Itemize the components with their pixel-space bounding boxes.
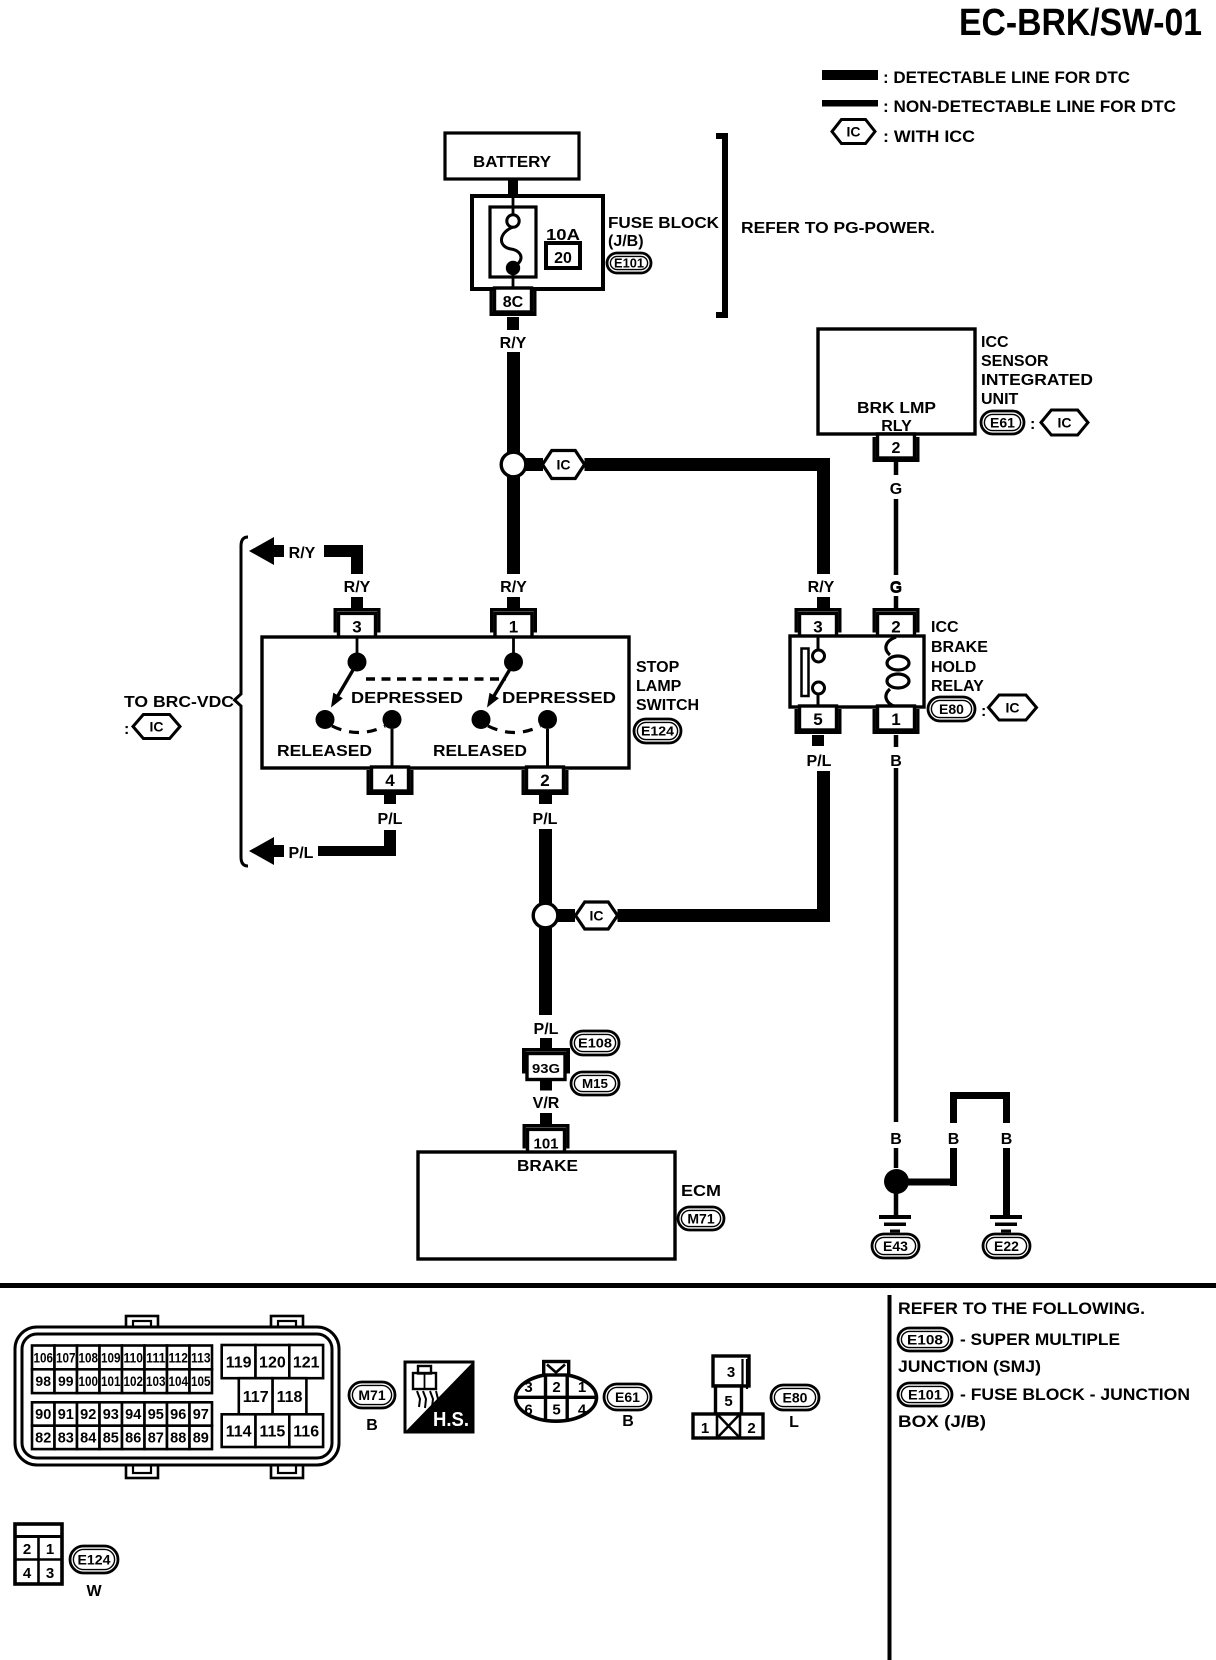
wire stub above relay pin2 — [894, 596, 899, 608]
svg-text:B: B — [622, 1413, 634, 1430]
connector pin 2 stop lamp switch — [527, 767, 564, 791]
bracket to BRC-VDC — [235, 537, 249, 866]
svg-text:119: 119 — [226, 1354, 252, 1371]
svg-text:87: 87 — [148, 1431, 164, 1447]
svg-text:BRK LMP: BRK LMP — [857, 400, 936, 417]
svg-text:IC: IC — [590, 908, 604, 924]
svg-text:G: G — [890, 580, 902, 597]
footnote divider — [888, 1295, 892, 1660]
arrow R/Y to BRC-VDC — [249, 537, 274, 565]
svg-text:W: W — [86, 1583, 102, 1600]
svg-text:93: 93 — [103, 1407, 119, 1423]
IC flag at node 2 — [576, 902, 618, 929]
svg-text:R/Y: R/Y — [500, 579, 527, 596]
svg-text:- SUPER MULTIPLE: - SUPER MULTIPLE — [960, 1330, 1120, 1349]
wire R/Y below node 1 — [507, 477, 520, 574]
svg-text:121: 121 — [293, 1354, 320, 1371]
svg-text:1: 1 — [701, 1420, 709, 1437]
svg-text:92: 92 — [80, 1407, 96, 1423]
svg-text:JUNCTION (SMJ): JUNCTION (SMJ) — [898, 1357, 1041, 1376]
wire P/L pin2 to node 2 — [539, 829, 552, 903]
fuse F20 housing — [490, 207, 536, 277]
svg-text:86: 86 — [125, 1431, 141, 1447]
svg-text:113: 113 — [191, 1349, 211, 1365]
svg-text:5: 5 — [724, 1393, 732, 1410]
arrow P/L to BRC-VDC — [249, 837, 274, 865]
H.S. logo — [405, 1362, 473, 1432]
wire stub below pin 4 — [384, 795, 396, 804]
connector pin 1 stop lamp switch — [490, 608, 537, 611]
svg-text:SENSOR: SENSOR — [981, 353, 1049, 370]
svg-text:E108: E108 — [907, 1332, 943, 1348]
connector label E124 switch — [634, 719, 681, 743]
svg-text:2: 2 — [552, 1379, 560, 1396]
svg-text:P/L: P/L — [807, 753, 832, 770]
svg-text:8C: 8C — [503, 294, 524, 311]
connector label E22 — [983, 1234, 1030, 1258]
wire B vertical long — [894, 768, 899, 1122]
svg-text:3: 3 — [524, 1379, 532, 1396]
ICC sensor integrated unit box — [818, 329, 975, 434]
svg-text:TO BRC-VDC: TO BRC-VDC — [124, 694, 234, 711]
svg-text:4: 4 — [23, 1565, 32, 1582]
svg-text:118: 118 — [277, 1389, 303, 1406]
svg-text:E61: E61 — [990, 415, 1015, 431]
svg-text:IC: IC — [1058, 415, 1072, 431]
fuse block J/B box — [472, 196, 603, 289]
svg-text:B: B — [890, 1131, 902, 1148]
connector label M71 bottom — [349, 1382, 395, 1408]
ground E22 symbol — [990, 1215, 1022, 1219]
ECM box — [418, 1152, 675, 1259]
node 1 tick — [526, 458, 543, 471]
svg-text:R/Y: R/Y — [500, 335, 527, 352]
wire B bridge left down — [950, 1148, 957, 1186]
wire battery to fuse block — [508, 179, 518, 197]
wire stub below relay pin1 — [894, 735, 899, 747]
connector pin 3 stop lamp switch — [334, 608, 381, 611]
wire B junction to ground — [894, 1193, 899, 1215]
svg-text:M15: M15 — [582, 1076, 608, 1091]
svg-text:20: 20 — [554, 250, 572, 267]
round connector E61 — [516, 1374, 597, 1421]
ecm connector pin grid lower-left — [32, 1402, 55, 1425]
connector pin 5 relay — [800, 706, 837, 730]
svg-text:(J/B): (J/B) — [608, 233, 644, 250]
svg-text:- FUSE BLOCK - JUNCTION: - FUSE BLOCK - JUNCTION — [960, 1385, 1190, 1404]
connector label E124 bottom — [70, 1546, 118, 1573]
svg-text:: WITH ICC: : WITH ICC — [883, 127, 975, 146]
svg-text:REFER TO PG-POWER.: REFER TO PG-POWER. — [741, 220, 935, 237]
svg-text:E108: E108 — [578, 1036, 612, 1051]
svg-text:EC-BRK/SW-01: EC-BRK/SW-01 — [959, 2, 1202, 44]
connector 8C — [495, 288, 532, 312]
svg-text:H.S.: H.S. — [433, 1408, 469, 1431]
node IC junction 1 — [501, 452, 526, 477]
svg-text:G: G — [890, 481, 902, 498]
ecm connector shell — [126, 1316, 158, 1329]
svg-text:B: B — [366, 1417, 378, 1434]
svg-text:95: 95 — [148, 1407, 164, 1423]
wire R/Y branch to pin3 — [324, 545, 363, 557]
svg-text:107: 107 — [56, 1349, 76, 1365]
svg-text:E101: E101 — [908, 1387, 942, 1403]
connector 2 below ICC unit — [878, 434, 915, 458]
wire thick vertical relay pin5 — [817, 771, 830, 922]
connector label M15 — [571, 1072, 619, 1095]
svg-text:93G: 93G — [532, 1061, 560, 1076]
svg-text:3: 3 — [813, 618, 822, 637]
svg-text:3: 3 — [352, 618, 361, 637]
connector label E80 relay — [928, 697, 975, 721]
svg-text:P/L: P/L — [289, 845, 314, 862]
svg-text:STOP: STOP — [636, 659, 680, 676]
svg-text:1: 1 — [578, 1379, 586, 1396]
svg-text:101: 101 — [101, 1373, 121, 1389]
svg-text:L: L — [789, 1414, 799, 1431]
svg-text:5: 5 — [813, 710, 822, 729]
svg-text:E124: E124 — [78, 1552, 111, 1568]
svg-text:1: 1 — [46, 1541, 54, 1558]
svg-text:99: 99 — [58, 1373, 74, 1389]
relay coil — [886, 637, 896, 655]
footnote E101 — [898, 1383, 952, 1406]
switch poles and contacts — [356, 638, 359, 654]
svg-text:M71: M71 — [687, 1211, 714, 1227]
svg-text:116: 116 — [293, 1423, 319, 1440]
wire P/L below node 2 — [539, 928, 552, 1015]
connector label E101 — [607, 253, 651, 273]
svg-text:FUSE BLOCK: FUSE BLOCK — [608, 215, 719, 232]
svg-text:BRAKE: BRAKE — [931, 639, 988, 656]
svg-text:E22: E22 — [994, 1238, 1019, 1254]
svg-text:97: 97 — [193, 1407, 209, 1423]
svg-text:2: 2 — [747, 1420, 755, 1437]
separator line — [0, 1283, 1216, 1288]
svg-text:84: 84 — [80, 1431, 96, 1447]
fuse number 20 box — [546, 243, 580, 268]
smj terminal 93G — [522, 1048, 570, 1052]
connector E80 cavity diagram — [713, 1356, 749, 1386]
svg-text:RELAY: RELAY — [931, 678, 984, 695]
svg-text:91: 91 — [58, 1407, 74, 1423]
wire stub below ICC unit 2 — [894, 462, 899, 475]
wire B bridge — [950, 1092, 1010, 1099]
legend detectable line sample — [822, 70, 878, 80]
wire stub below relay pin5 — [812, 735, 824, 746]
svg-text:112: 112 — [168, 1349, 188, 1365]
svg-text:104: 104 — [168, 1373, 188, 1389]
svg-text:83: 83 — [58, 1431, 74, 1447]
svg-text:88: 88 — [170, 1431, 186, 1447]
svg-text:111: 111 — [146, 1349, 166, 1365]
node 2 tick — [558, 909, 575, 922]
svg-text:90: 90 — [35, 1407, 51, 1423]
IC flag at node 1 — [543, 451, 585, 479]
svg-text:E80: E80 — [939, 701, 964, 717]
svg-text:85: 85 — [103, 1431, 119, 1447]
wire stub below 8C — [507, 317, 519, 330]
svg-text:105: 105 — [191, 1373, 211, 1389]
svg-text:109: 109 — [101, 1349, 121, 1365]
svg-text:: NON-DETECTABLE LINE FOR DTC: : NON-DETECTABLE LINE FOR DTC — [883, 97, 1176, 116]
connector label E80 bottom — [771, 1385, 819, 1410]
connector E124 cavity diagram — [15, 1524, 62, 1584]
svg-text:4: 4 — [385, 771, 395, 790]
connector label E108 — [571, 1031, 619, 1055]
svg-text:INTEGRATED: INTEGRATED — [981, 372, 1093, 389]
svg-text:P/L: P/L — [378, 811, 403, 828]
wire stub above 101 — [540, 1113, 552, 1124]
wire B to junction — [894, 1148, 899, 1168]
svg-text:106: 106 — [33, 1349, 53, 1365]
svg-text:IC: IC — [557, 457, 571, 473]
svg-text:R/Y: R/Y — [289, 545, 316, 562]
svg-text:IC: IC — [150, 719, 164, 735]
node IC junction 2 — [533, 903, 558, 928]
ecm connector pin grid right-row3 — [222, 1414, 256, 1447]
svg-text:REFER TO THE FOLLOWING.: REFER TO THE FOLLOWING. — [898, 1299, 1145, 1318]
svg-text:89: 89 — [193, 1431, 209, 1447]
svg-text:E61: E61 — [615, 1389, 640, 1405]
switch linkage dashed line — [366, 677, 506, 680]
svg-text:B: B — [1001, 1131, 1013, 1148]
fuse F20 symbol — [512, 196, 515, 215]
svg-text::: : — [124, 721, 129, 738]
connector pin 1 relay — [878, 706, 915, 730]
svg-text:UNIT: UNIT — [981, 391, 1019, 408]
svg-text:B: B — [890, 753, 902, 770]
svg-text:96: 96 — [170, 1407, 186, 1423]
svg-text:4: 4 — [578, 1402, 587, 1419]
connector pin 101 ECM — [523, 1124, 570, 1127]
svg-text:103: 103 — [146, 1373, 166, 1389]
svg-text:RELEASED: RELEASED — [277, 743, 372, 760]
IC flag E61 — [1041, 410, 1088, 435]
battery — [445, 133, 579, 179]
ground E43 symbol — [879, 1215, 911, 1219]
svg-text:DEPRESSED: DEPRESSED — [351, 690, 463, 707]
svg-text:2: 2 — [892, 440, 901, 457]
wire thick horizontal node2 to relay — [618, 909, 831, 922]
svg-text:IC: IC — [1006, 700, 1020, 716]
svg-text:101: 101 — [533, 1136, 558, 1153]
svg-text:HOLD: HOLD — [931, 659, 976, 676]
svg-text:94: 94 — [125, 1407, 141, 1423]
svg-text:110: 110 — [123, 1349, 143, 1365]
svg-text:ICC: ICC — [931, 619, 959, 636]
wire stub above 93G — [540, 1038, 552, 1049]
ecm connector pin grid right-row2 — [239, 1378, 273, 1414]
svg-text:BOX (J/B): BOX (J/B) — [898, 1412, 986, 1431]
svg-text:: DETECTABLE LINE FOR DTC: : DETECTABLE LINE FOR DTC — [883, 68, 1130, 87]
svg-text:117: 117 — [243, 1389, 269, 1406]
svg-text::: : — [1030, 416, 1035, 433]
svg-text:DEPRESSED: DEPRESSED — [502, 690, 616, 707]
svg-text:RELEASED: RELEASED — [433, 743, 527, 760]
svg-text:BATTERY: BATTERY — [473, 154, 551, 171]
svg-text:ECM: ECM — [681, 1183, 721, 1200]
wire P/L branch from pin4 — [318, 846, 394, 856]
connector label M71 ecm — [678, 1207, 724, 1230]
connector pin 2 icc brake hold relay — [873, 608, 920, 611]
wire G vertical — [894, 499, 899, 575]
svg-text:98: 98 — [35, 1373, 51, 1389]
svg-text:114: 114 — [226, 1423, 252, 1440]
svg-text:E43: E43 — [883, 1238, 908, 1254]
svg-text:IC: IC — [847, 124, 861, 140]
IC flag E80 — [989, 695, 1037, 720]
legend non-detectable line sample — [822, 100, 878, 107]
relay contact bar — [817, 637, 820, 650]
ecm connector pin grid right-row1 — [222, 1345, 256, 1378]
wire R/Y main vertical — [507, 352, 520, 452]
svg-text:M71: M71 — [358, 1387, 385, 1403]
svg-text:1: 1 — [509, 618, 518, 637]
connector pin 4 stop lamp switch — [372, 767, 409, 791]
svg-text::: : — [981, 703, 986, 720]
junction dot B — [884, 1169, 909, 1194]
svg-text:108: 108 — [78, 1349, 98, 1365]
svg-text:ICC: ICC — [981, 334, 1009, 351]
bracket refer pg-power — [716, 136, 725, 315]
wire thick horizontal to relay branch — [585, 458, 831, 471]
connector label E61 unit — [981, 411, 1024, 434]
wire B bridge right down — [1003, 1148, 1010, 1215]
svg-text:LAMP: LAMP — [636, 678, 682, 695]
svg-text:115: 115 — [259, 1423, 285, 1440]
svg-text:5: 5 — [552, 1402, 560, 1419]
wire stub above switch pin1 — [507, 597, 520, 608]
svg-text:6: 6 — [524, 1402, 532, 1419]
ICC brake hold relay box — [790, 636, 924, 707]
wire stub below 93G — [540, 1080, 552, 1091]
wire stub above switch pin3 — [351, 597, 363, 608]
connector label E43 — [872, 1234, 919, 1258]
svg-text:P/L: P/L — [533, 811, 558, 828]
svg-text:R/Y: R/Y — [808, 579, 835, 596]
footnote E108 — [898, 1328, 952, 1351]
wire stub below pin 2 — [539, 795, 552, 804]
svg-text:2: 2 — [891, 618, 900, 637]
svg-text:2: 2 — [23, 1541, 31, 1558]
svg-text:2: 2 — [540, 771, 549, 790]
svg-text:E80: E80 — [783, 1390, 808, 1406]
svg-text:82: 82 — [35, 1431, 51, 1447]
wire stub above relay pin3 — [817, 597, 830, 608]
svg-text:102: 102 — [123, 1373, 143, 1389]
svg-text:B: B — [948, 1131, 960, 1148]
svg-text:E124: E124 — [641, 724, 675, 739]
svg-text:1: 1 — [891, 710, 900, 729]
stop lamp switch box — [262, 637, 629, 768]
svg-text:R/Y: R/Y — [344, 579, 371, 596]
svg-text:BRAKE: BRAKE — [517, 1158, 578, 1175]
connector label E61 bottom — [604, 1384, 651, 1410]
svg-text:V/R: V/R — [533, 1095, 560, 1112]
ecm connector pin grid upper-left — [32, 1346, 55, 1370]
svg-text:E101: E101 — [614, 256, 644, 271]
legend IC symbol — [832, 120, 875, 144]
svg-text:SWITCH: SWITCH — [636, 697, 699, 714]
svg-text:P/L: P/L — [534, 1021, 559, 1038]
svg-text:3: 3 — [46, 1565, 54, 1582]
connector pin 3 icc brake hold relay — [795, 608, 842, 611]
wire thick vertical relay branch — [817, 458, 830, 574]
svg-text:120: 120 — [259, 1354, 286, 1371]
svg-text:100: 100 — [78, 1373, 98, 1389]
svg-text:3: 3 — [727, 1364, 735, 1381]
